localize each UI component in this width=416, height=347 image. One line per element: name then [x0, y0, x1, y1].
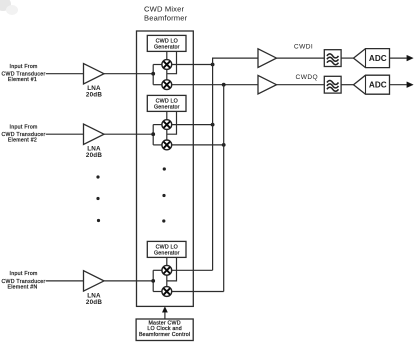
mixer M2a (I) — [162, 120, 172, 130]
LNA amplifier AN (20dB) — [84, 271, 105, 291]
wire: filter to ADC (CWDI) — [341, 57, 353, 59]
wire: mixer M2a output to I bus — [172, 124, 213, 126]
wire: LO U2 to mixer M2a — [166, 111, 168, 119]
wire: LO UN to mixer MNb — [167, 257, 177, 281]
wire: mixer M1a output to I bus — [172, 64, 213, 66]
wire: input #1 to LNA — [46, 73, 84, 75]
LNA amplifier A1 (20dB) — [84, 64, 105, 84]
wire CWDQ: mixer M1b output through Q bus to amp — [172, 84, 258, 86]
svg-text:20dB: 20dB — [86, 152, 102, 159]
CWD LO Generator U1 — [147, 35, 186, 51]
svg-text:Element #N: Element #N — [7, 284, 37, 290]
CWD LO Generator UN — [147, 241, 186, 257]
svg-text:Generator: Generator — [154, 44, 180, 50]
svg-text:Element #1: Element #1 — [8, 77, 37, 83]
wire: LO U2 to mixer M2b — [167, 111, 177, 134]
wire: LO UN to mixer MNa — [166, 257, 168, 265]
svg-text:CWDI: CWDI — [294, 44, 313, 51]
output arrow (CWDI) — [390, 57, 409, 59]
svg-text:Beamformer: Beamformer — [144, 13, 188, 22]
svg-text:Input From: Input From — [10, 271, 38, 277]
svg-text:ADC: ADC — [369, 81, 387, 90]
node J1: input split to mixers — [152, 65, 154, 85]
svg-text:Element #2: Element #2 — [8, 138, 37, 144]
node JN: input split to mixers — [152, 270, 154, 291]
svg-text:Input From: Input From — [10, 64, 38, 70]
mixer M1b (Q) — [162, 80, 172, 90]
wire: between mixers MNa and MNb — [166, 275, 168, 286]
wire: filter to ADC (CWDQ) — [341, 84, 353, 86]
wire: LO U1 to mixer M1b — [167, 51, 177, 73]
svg-text:ADC: ADC — [369, 54, 387, 63]
svg-text:Generator: Generator — [154, 104, 180, 110]
wire: amp to filter (CWDI) — [277, 57, 325, 59]
ellipsis dots (input channels) — [96, 175, 99, 178]
output amplifier (CWDQ) — [258, 75, 277, 94]
ellipsis dots (mixer column) — [163, 167, 166, 170]
svg-text:CWD Mixer: CWD Mixer — [144, 5, 184, 14]
svg-text:Generator: Generator — [154, 250, 180, 256]
node J2: input split to mixers — [152, 125, 154, 145]
CWD LO Generator U2 — [147, 95, 186, 111]
arrow: master control to beamformer — [164, 312, 166, 320]
svg-text:20dB: 20dB — [86, 299, 102, 306]
low-pass filter (CWDI) — [324, 50, 341, 67]
mixer M1a (I) — [162, 60, 172, 70]
wire: input #2 to LNA — [46, 133, 84, 135]
junction dot on I bus (channel 2) — [211, 123, 215, 127]
junction dot on Q bus (channel 1) — [222, 83, 226, 87]
svg-text:CWDQ: CWDQ — [296, 74, 318, 81]
mixer MNa (I) — [162, 265, 172, 275]
wire: mixer MNa output to I bus bottom corner — [172, 269, 213, 271]
wire: LO U1 to mixer M1a — [166, 51, 168, 59]
output arrow (CWDQ) — [390, 84, 409, 86]
mixer MNb (Q) — [162, 287, 172, 297]
CWD Mixer Beamformer enclosure box — [137, 31, 194, 306]
output amplifier (CWDI) — [258, 49, 277, 68]
svg-text:20dB: 20dB — [86, 92, 102, 99]
wire: mixer M2b output to Q bus — [172, 144, 224, 146]
Master CWD LO Clock and Beamformer Control box — [136, 319, 193, 341]
junction dot on I bus (channel 1) — [211, 63, 215, 67]
junction dot on Q bus (channel 2) — [222, 143, 226, 147]
Q summing bus (vertical) — [223, 85, 225, 292]
mixer M2b (Q) — [162, 140, 172, 150]
low-pass filter (CWDQ) — [324, 76, 341, 93]
wire: mixer MNb output to Q bus bottom corner — [172, 291, 224, 293]
LNA amplifier A2 (20dB) — [84, 124, 105, 144]
svg-text:Input From: Input From — [10, 124, 38, 130]
wire: LNA A2 output into beamformer — [104, 133, 153, 135]
wire: input #N to LNA — [46, 280, 84, 282]
wire: amp to filter (CWDQ) — [277, 84, 325, 86]
wire: between mixers M2a and M2b — [166, 130, 168, 141]
I summing bus (vertical) with top corner to CWDI — [213, 58, 258, 270]
wire: LNA A1 output into beamformer — [104, 73, 153, 75]
svg-text:Beamformer Control: Beamformer Control — [139, 332, 190, 338]
ADC (CWDI) — [354, 49, 390, 68]
wire: between mixers M1a and M1b — [166, 69, 168, 79]
ADC (CWDQ) — [354, 75, 390, 94]
wire: LNA AN output into beamformer — [104, 280, 153, 282]
